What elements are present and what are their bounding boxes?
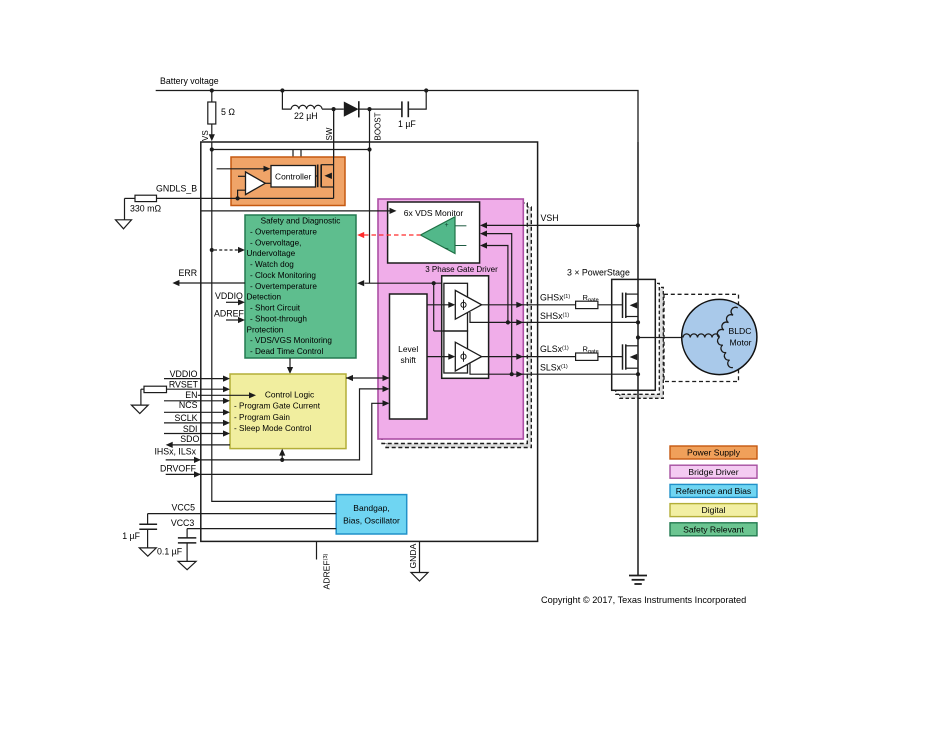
svg-text:- Dead Time Control: - Dead Time Control (250, 347, 323, 356)
svg-text:0.1 µF: 0.1 µF (157, 547, 183, 557)
svg-text:5 Ω: 5 Ω (221, 107, 235, 117)
svg-text:Protection: Protection (247, 325, 284, 334)
svg-text:BLDC: BLDC (729, 326, 752, 336)
svg-text:Reference and Bias: Reference and Bias (676, 486, 751, 496)
svg-text:Battery voltage: Battery voltage (160, 76, 219, 86)
svg-text:+: + (444, 222, 448, 229)
svg-text:- VDS/VGS Monitoring: - VDS/VGS Monitoring (250, 336, 332, 345)
svg-text:Undervoltage: Undervoltage (247, 249, 296, 258)
svg-text:- Clock Monitoring: - Clock Monitoring (250, 271, 316, 280)
svg-text:GNDA: GNDA (408, 543, 418, 568)
svg-text:22 µH: 22 µH (294, 111, 318, 121)
svg-text:Copyright © 2017, Texas Instru: Copyright © 2017, Texas Instruments Inco… (541, 595, 746, 605)
svg-text:VS: VS (201, 130, 210, 141)
svg-text:Bridge Driver: Bridge Driver (688, 467, 738, 477)
svg-text:ERR: ERR (179, 268, 198, 278)
svg-text:DRVOFF: DRVOFF (160, 463, 197, 473)
svg-text:SDI: SDI (183, 424, 198, 434)
svg-text:SW: SW (325, 127, 334, 140)
svg-text:- Overtemperature: - Overtemperature (250, 282, 317, 291)
svg-text:VCC5: VCC5 (172, 503, 196, 513)
svg-text:- Program Gate Current: - Program Gate Current (234, 402, 321, 411)
svg-text:3 × PowerStage: 3 × PowerStage (567, 267, 630, 277)
svg-text:VCC3: VCC3 (171, 518, 195, 528)
svg-text:3 Phase Gate Driver: 3 Phase Gate Driver (425, 265, 498, 274)
svg-text:Bias, Oscillator: Bias, Oscillator (343, 516, 400, 526)
svg-text:IHSx, ILSx: IHSx, ILSx (154, 447, 196, 457)
svg-text:Power Supply: Power Supply (687, 448, 741, 458)
svg-text:Digital: Digital (702, 505, 726, 515)
svg-text:- Watch dog: - Watch dog (250, 260, 294, 269)
svg-text:GNDLS_B: GNDLS_B (156, 184, 197, 194)
svg-text:Detection: Detection (247, 293, 282, 302)
svg-text:- Program Gain: - Program Gain (234, 413, 290, 422)
svg-text:shift: shift (401, 355, 417, 365)
svg-text:VDDIO: VDDIO (215, 291, 243, 301)
svg-text:Motor: Motor (730, 338, 752, 348)
svg-text:- Overtemperature: - Overtemperature (250, 228, 317, 237)
svg-text:1 µF: 1 µF (122, 531, 140, 541)
svg-text:6x VDS Monitor: 6x VDS Monitor (404, 208, 464, 218)
svg-text:VDDIO: VDDIO (170, 369, 198, 379)
svg-text:Control Logic: Control Logic (265, 390, 314, 400)
svg-text:RVSET: RVSET (169, 380, 199, 390)
svg-text:EN: EN (185, 390, 197, 400)
svg-text:- Sleep Mode Control: - Sleep Mode Control (234, 424, 312, 433)
svg-text:Bandgap,: Bandgap, (353, 503, 389, 513)
svg-text:- Overvoltage,: - Overvoltage, (250, 238, 301, 247)
svg-text:330 mΩ: 330 mΩ (130, 204, 161, 214)
svg-text:BOOST: BOOST (374, 112, 383, 140)
svg-text:Controller: Controller (275, 172, 312, 182)
svg-text:VSH: VSH (541, 213, 559, 223)
svg-text:1 µF: 1 µF (398, 119, 416, 129)
svg-text:Safety Relevant: Safety Relevant (683, 524, 744, 534)
svg-text:- Shoot-through: - Shoot-through (250, 314, 307, 323)
svg-text:−: − (444, 246, 448, 253)
svg-text:SCLK: SCLK (175, 413, 198, 423)
svg-text:- Short Circuit: - Short Circuit (250, 304, 301, 313)
svg-text:Safety and Diagnostic: Safety and Diagnostic (261, 217, 341, 226)
svg-text:SDO: SDO (180, 434, 199, 444)
svg-text:ADREF: ADREF (214, 309, 244, 319)
svg-text:Level: Level (398, 344, 418, 354)
